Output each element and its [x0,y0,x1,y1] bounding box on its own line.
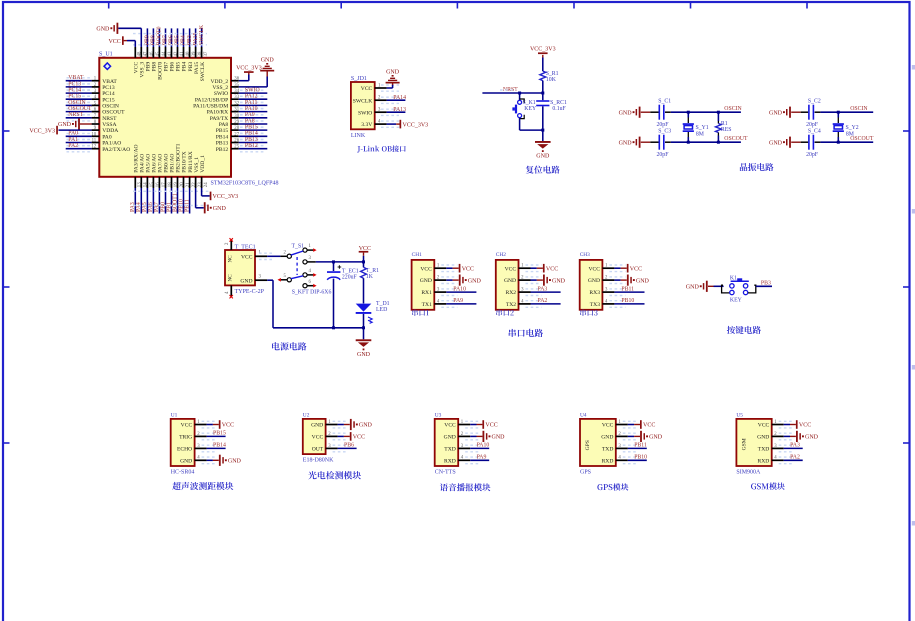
U1 pin 26 (PB13) stub + wire [231,137,267,146]
CH2 pin 2 stub [519,276,542,284]
U1 pin 9 (VDDA) stub + wire [92,126,100,131]
svg-text:SWIO: SWIO [214,91,228,97]
power circuit bottom rail + ground [273,326,371,358]
U1 pin 25 (PB12) stub + wire [231,143,267,152]
wire + net label PA2 (CH2 pin 4) [531,298,561,304]
ground (S_C2 side) [769,107,801,118]
CH1 pin 1 stub [434,264,457,272]
svg-text:OSCIN: OSCIN [724,106,742,112]
svg-text:GND: GND [386,69,400,75]
svg-text:10: 10 [91,132,96,137]
svg-text:PC15: PC15 [68,94,81,100]
svg-text:PB4: PB4 [182,62,188,72]
U1 pin 19 (PB1/AO) stub + wire [166,177,179,214]
U1 pin 27 (PB14) stub + wire [231,131,267,140]
wire + net label NRST [482,87,544,95]
svg-text:TXD: TXD [602,447,614,453]
svg-text:OSCIN: OSCIN [102,104,119,110]
U1 pin 6 (OSCOUT) stub + wire [66,106,100,115]
U3 pin 4 RXD connection [458,455,489,464]
svg-text:VCC_3V3: VCC_3V3 [236,65,262,71]
svg-text:CH3: CH3 [580,252,590,258]
wire + net label PA9 (CH1 pin 4) [446,298,476,304]
svg-text:PB12: PB12 [216,147,229,153]
wire + net label PA13 (S_JD1 pin 3) [387,107,406,113]
ground (S_C3 side) [619,137,651,148]
svg-text:3.3V: 3.3V [361,122,372,128]
svg-text:GND: GND [601,435,613,441]
svg-text:PA3: PA3 [538,286,548,292]
svg-text:VDD_2: VDD_2 [210,79,228,85]
svg-text:U2: U2 [303,413,310,419]
CH3 pin 2 stub [602,276,625,284]
power VCC at CH3 pin 1 [614,264,642,273]
U1 pin 4 (PC15) stub + wire [66,94,100,103]
svg-text:PA9: PA9 [453,298,463,304]
S_JD1 pin 2 stub [375,96,399,104]
svg-text:OUT: OUT [312,447,324,453]
ground at S_JD1 pin 1 [386,69,400,88]
U1 pin 7 (NRST) stub + wire [66,112,100,121]
svg-text:PA3: PA3 [790,443,800,449]
svg-text:GND: GND [492,435,506,441]
svg-text:S_U1: S_U1 [99,52,113,58]
svg-text:PA13: PA13 [393,107,406,113]
svg-text:VCC: VCC [602,423,614,429]
svg-text:10K: 10K [546,77,557,83]
U1 pin 10 (PA0) stub + wire [66,131,100,140]
svg-text:VCC: VCC [799,423,811,429]
U1 pin 12 (PA2/TX/AO) stub + wire [66,143,100,152]
U1 pin 39 (PB3) stub + wire [187,28,197,57]
U1 pin 2 (PC13) stub + wire [66,81,100,90]
ground at U1 pin 47 VSS_3 [96,23,141,47]
CH2 pin 3 stub [519,288,542,296]
U1 pin 24 (VDD_1) stub + wire [202,177,209,188]
module U4 GPS [580,413,616,476]
svg-text:PB10: PB10 [621,298,634,304]
svg-text:T_EC1: T_EC1 [342,268,359,274]
svg-text:PA9: PA9 [477,455,487,461]
T_TEC1 pin 3 GND wire to bottom rail [255,274,273,328]
module U5 SIM900A [736,413,771,476]
svg-text:OSCOUT: OSCOUT [850,136,874,142]
svg-text:SWCLK: SWCLK [200,62,206,82]
svg-text:VDD_1: VDD_1 [200,155,206,173]
svg-text:0.1uF: 0.1uF [552,106,566,112]
U4 pin 2 GND connection [616,431,663,442]
U5 pin 2 GND connection [772,431,819,442]
U1 pin 5 (OSCIN) stub + wire [66,100,100,109]
connector T_TEC1 TYPE-C-2P [225,245,265,296]
svg-text:S_JD1: S_JD1 [351,76,367,82]
U1 pin 21 (PB10/TX) stub + wire [178,177,191,214]
title 晶振电路 [740,163,774,171]
svg-text:S_C2: S_C2 [808,99,821,105]
CH1 pin 3 stub [434,288,457,296]
svg-text:PB13: PB13 [216,141,229,147]
CH3 pin 3 stub [602,288,625,296]
module U3 CN-TTS [435,413,459,476]
svg-text:GND: GND [588,278,600,284]
svg-text:STM32F103C8T6_LQFP48: STM32F103C8T6_LQFP48 [211,181,279,187]
U4 pin 4 RXD connection [616,455,647,464]
U1 pin 17 (PA7/AO) stub + wire [154,177,167,214]
net label OSCIN [850,106,868,112]
ground at CH2 pin 2 [531,275,566,286]
svg-text:T_S1: T_S1 [292,244,305,250]
U1 pin 23 (VSS_1) stub + wire [196,177,203,188]
svg-text:TYPE-C-2P: TYPE-C-2P [235,289,265,295]
svg-text:VCC: VCC [108,39,120,45]
U1 pin 13 (PA3/RX/AO) stub + wire [130,177,143,214]
U1 pin 40 (PB4) stub + wire [181,28,191,57]
svg-text:T_TEC1: T_TEC1 [235,245,256,251]
svg-text:GSM: GSM [741,438,747,450]
power VCC_3V3 at U1 pin 9 VDDA [29,126,91,135]
svg-text:VCC: VCC [312,435,324,441]
U1 pin 3 ECHO connection [195,443,226,452]
svg-text:VCC: VCC [643,423,655,429]
svg-text:VCC: VCC [485,423,497,429]
capacitor S_C4 20pF [801,129,874,158]
U3 pin 3 TXD connection [458,443,489,452]
svg-text:SIM900A: SIM900A [736,469,761,475]
svg-text:PA10: PA10 [453,286,466,292]
svg-text:8M: 8M [696,132,704,138]
ground at CH3 pin 2 [614,275,649,286]
U1 pin 35 (VSS_2) stub + wire [231,83,240,88]
svg-text:BOOT0: BOOT0 [157,26,163,45]
svg-text:PA2/TX/AO: PA2/TX/AO [102,147,130,153]
CH2 pin 4 stub [519,299,542,307]
svg-text:CH1: CH1 [412,252,422,258]
svg-text:GPS: GPS [580,469,591,475]
svg-text:TX1: TX1 [422,302,432,308]
svg-text:CH2: CH2 [496,252,506,258]
svg-text:PC13: PC13 [102,85,115,91]
svg-text:37: 37 [204,51,209,56]
svg-text:VCC: VCC [758,423,770,429]
svg-text:PA0: PA0 [102,134,112,140]
svg-text:S_Y1: S_Y1 [696,125,709,131]
U4 pin 3 TXD connection [616,443,647,452]
svg-text:2: 2 [225,242,230,245]
power VCC (top of power circuit) [359,246,371,262]
svg-text:ECHO: ECHO [177,447,192,453]
svg-text:RXD: RXD [444,458,456,464]
svg-text:SWIO: SWIO [245,88,260,94]
svg-text:U5: U5 [736,413,743,419]
CH3 pin 4 stub [602,299,625,307]
push button S_K1 KEY [512,93,542,130]
svg-text:PB13: PB13 [245,137,258,143]
power VCC_3V3 at U1 pin 36 VDD_2 [236,65,262,80]
svg-text:BOOT0: BOOT0 [158,62,164,80]
switch T_S1 S_KFT DIP-6X6 [278,244,332,296]
svg-text:U1: U1 [171,413,178,419]
svg-text:S_C1: S_C1 [658,99,671,105]
U1 pin 47 (VSS_3) stub + wire [141,47,148,58]
wire + net label PA3 (CH2 pin 3) [531,286,561,292]
svg-text:GND: GND [636,278,650,284]
svg-text:PC14: PC14 [102,91,115,97]
net label OSCIN [724,106,742,112]
svg-text:OSCOUT: OSCOUT [102,110,125,116]
title 电源电路 [272,342,306,350]
svg-text:PB6: PB6 [344,443,354,449]
U2 pin 1 GND connection [326,419,373,430]
svg-text:TRIG: TRIG [179,435,192,441]
ground (S_C1 side) [619,107,651,118]
svg-text:GND: GND [240,278,252,284]
svg-text:TX2: TX2 [506,302,516,308]
power VCC_3V3 (reset circuit top) [530,47,556,72]
svg-text:GND: GND [180,458,192,464]
svg-text:VSS_2: VSS_2 [212,85,228,91]
title 语音播报模块 [440,483,491,491]
svg-text:RXD: RXD [757,458,769,464]
U2 pin 3 OUT connection [326,443,357,452]
wire + net label PA10 (CH1 pin 3) [446,286,476,292]
svg-text:PB3: PB3 [761,281,771,287]
svg-text:S_Y2: S_Y2 [846,125,859,131]
svg-text:VCC: VCC [361,86,373,92]
power VCC_3V3 at U1 pin 24 VDD_1 [202,188,239,200]
svg-text:VCC_3V3: VCC_3V3 [403,122,429,128]
svg-text:VCC_3V3: VCC_3V3 [29,128,55,134]
svg-text:PA8: PA8 [219,122,229,128]
ground (key circuit) [686,281,714,292]
svg-text:RES: RES [721,127,732,133]
CH1 pin 2 stub [434,276,457,284]
svg-text:U3: U3 [435,413,442,419]
svg-text:GND: GND [213,206,227,212]
title J-Link OB接口 [357,145,405,152]
title 超声波测距模块 [172,482,233,490]
U5 pin 3 TXD connection [772,443,803,452]
svg-text:PA1/AO: PA1/AO [102,141,121,147]
U1 pin 4 GND connection [195,455,242,466]
ground at U1 pin 8 VSSA [58,118,92,129]
svg-text:TX3: TX3 [590,302,600,308]
U1 pin 1 VCC connection [195,420,235,429]
U1 pin 1 (VBAT) stub + wire [66,75,100,84]
U3 pin 1 VCC connection [458,420,498,429]
svg-text:24: 24 [204,182,209,187]
svg-text:KEY: KEY [524,106,537,112]
label 串口3 [580,309,597,316]
U1 pin 44 (BOOT0) stub + wire [157,26,167,57]
svg-text:4: 4 [225,291,230,294]
ground at U1 pin 23 VSS_1 [196,188,227,213]
label 串口1 [412,309,429,316]
power VCC_3V3 at S_JD1 pin 4 [387,120,429,129]
svg-text:K1: K1 [730,275,737,281]
svg-text:1K: 1K [366,274,374,280]
module U1 HC-SR04 [171,413,195,476]
svg-text:T_D1: T_D1 [376,301,390,307]
U5 pin 4 RXD connection [772,455,803,464]
svg-text:KEY: KEY [730,297,743,303]
svg-text:GND: GND [504,278,516,284]
title 复位电路 [526,166,560,174]
power VCC at CH1 pin 1 [446,264,474,273]
module U2 E18-D80NK [303,413,334,464]
svg-text:PA10: PA10 [477,443,490,449]
svg-text:OSCOUT: OSCOUT [68,106,92,112]
U1 pin 43 (PB7) stub + wire [163,28,173,57]
U1 pin 15 (PA5/AO) stub + wire [142,177,155,214]
U5 pin 1 VCC connection [772,420,812,429]
svg-text:PC14: PC14 [68,88,81,94]
svg-text:5: 5 [284,274,287,279]
crystal S_Y2 8M [833,111,859,144]
U4 pin 1 VCC connection [616,420,656,429]
svg-text:PA2: PA2 [790,455,800,461]
capacitor S_C3 20pF [650,129,741,158]
U2 pin 2 VCC connection [326,432,366,441]
wire + net label PB10 (CH3 pin 4) [614,298,644,304]
U1 pin 33 (PA12/USB/DP) stub + wire [231,94,267,103]
svg-text:PA7: PA7 [154,202,160,212]
capacitor S_C2 20pF [801,99,874,128]
wire + net label PB11 (CH3 pin 3) [614,286,644,292]
connector CH1 (serial) [412,252,435,310]
svg-text:PA12: PA12 [245,94,258,100]
svg-text:RXD: RXD [602,458,614,464]
svg-text:PA10: PA10 [245,106,258,112]
svg-text:20pF: 20pF [657,152,670,158]
svg-text:SWIO: SWIO [358,110,372,116]
svg-text:LED: LED [376,307,387,313]
U1 pin 3 (PC14) stub + wire [66,88,100,97]
svg-text:PA11: PA11 [245,100,258,106]
title 光电检测模块 [308,471,361,479]
svg-text:VCC: VCC [241,255,253,261]
LED T_D1 [356,301,390,328]
svg-text:GND: GND [58,122,72,128]
svg-text:4: 4 [309,269,312,274]
U1 pin 36 (VDD_2) stub + wire [231,77,240,82]
U1 pin 32 (PA11/USB/DM) stub + wire [231,100,267,109]
svg-text:PA4: PA4 [136,202,142,212]
svg-text:VCC: VCC [181,423,193,429]
U1 pin 46 (PB9) stub + wire [145,28,155,57]
U1 pin 41 (PB5) stub + wire [175,28,185,57]
svg-text:VBAT: VBAT [102,79,117,85]
electrolytic capacitor T_EC1 220uF [327,262,359,328]
svg-text:20pF: 20pF [806,152,819,158]
U1 pin 34 (SWIO) stub + wire [231,88,267,97]
svg-text:NRST: NRST [102,116,117,122]
ground at CH1 pin 2 [446,275,481,286]
U1 pin 2 TRIG connection [195,431,226,440]
svg-text:PB14: PB14 [213,443,226,449]
U1 pin 38 (PA15) stub + wire [193,28,203,57]
title GPS模块 [597,483,628,490]
MCU U1 STM32F103C8T6_LQFP48 body [99,52,279,187]
svg-text:PA2: PA2 [538,298,548,304]
S_JD1 pin 1 stub [375,83,399,91]
U1 pin 8 (VSSA) stub + wire [92,120,100,125]
svg-text:GND: GND [552,278,566,284]
svg-text:PB10/TX: PB10/TX [182,151,188,172]
power VCC at CH2 pin 1 [531,264,559,273]
svg-text:RX2: RX2 [506,290,517,296]
ground (S_C4 side) [769,137,801,148]
svg-text:NC: NC [228,274,234,282]
svg-text:GND: GND [311,423,323,429]
svg-text:E18-D80NK: E18-D80NK [303,457,334,463]
svg-text:VCC: VCC [630,266,642,272]
ground at U1 pin 35 VSS_2 [239,57,275,87]
svg-text:NRST: NRST [68,112,83,118]
svg-text:VCC: VCC [420,266,432,272]
ground (reset circuit bottom) [535,130,551,160]
svg-text:PB14: PB14 [245,131,258,137]
svg-text:VCC_3V3: VCC_3V3 [530,47,556,53]
resistor S_R1 10K [540,71,559,83]
svg-text:PB10: PB10 [634,455,647,461]
S_JD1 pin 4 stub [375,120,399,128]
svg-text:PB12: PB12 [245,143,258,149]
resistor R1 RES (crystal feedback) [716,111,732,144]
wire + net label PA14 (S_JD1 pin 2) [387,95,406,101]
svg-text:PC15: PC15 [102,97,115,103]
svg-text:S_C3: S_C3 [658,129,671,135]
svg-text:3: 3 [259,274,262,279]
U1 pin 11 (PA1/AO) stub + wire [66,137,100,146]
wire from S_R1 to NRST node [542,81,544,93]
T_TEC1 shield pin (bottom, NC) [225,285,233,298]
svg-text:PA14: PA14 [393,95,406,101]
svg-text:S_KFT DIP-6X6: S_KFT DIP-6X6 [292,290,332,296]
svg-text:11: 11 [92,139,97,144]
power VCC at U1 pin 48 [108,36,135,47]
svg-text:PC13: PC13 [68,81,81,87]
title GSM模块 [751,483,785,490]
svg-text:VCC: VCC [546,266,558,272]
U1 pin 16 (PA6/AO) stub + wire [148,177,161,214]
crystal S_Y1 8M [683,111,709,144]
svg-text:PA2: PA2 [68,143,78,149]
svg-text:6: 6 [309,280,312,285]
svg-text:HC-SR04: HC-SR04 [171,469,195,475]
wire + net label PB3 (key) [756,281,772,287]
resistor T_R1 1K [361,262,380,304]
svg-text:GND: GND [619,140,633,146]
svg-text:PA7/AO: PA7/AO [158,154,164,173]
CH2 pin 1 stub [519,264,542,272]
svg-text:PB14: PB14 [216,134,229,140]
svg-text:12: 12 [91,145,96,150]
svg-text:VCC: VCC [444,423,456,429]
U1 pin 14 (PA4/AO) stub + wire [136,177,149,214]
svg-text:VCC: VCC [222,423,234,429]
T_TEC1 pin 1 VCC wire to switch [255,250,280,259]
U1 pin 31 (PA10/RX) stub + wire [231,106,267,115]
U1 pin 28 (PB15) stub + wire [231,125,267,134]
svg-text:PA11/USB/DM: PA11/USB/DM [193,104,228,110]
svg-text:GND: GND [444,435,456,441]
svg-text:NC: NC [228,255,234,263]
svg-text:GND: GND [228,459,242,465]
U1 pin 30 (PA9/TX) stub + wire [231,112,267,121]
svg-text:220uF: 220uF [342,275,358,281]
svg-text:VBAT: VBAT [68,75,84,81]
T_TEC1 shield pin (top, NC) [225,238,233,250]
